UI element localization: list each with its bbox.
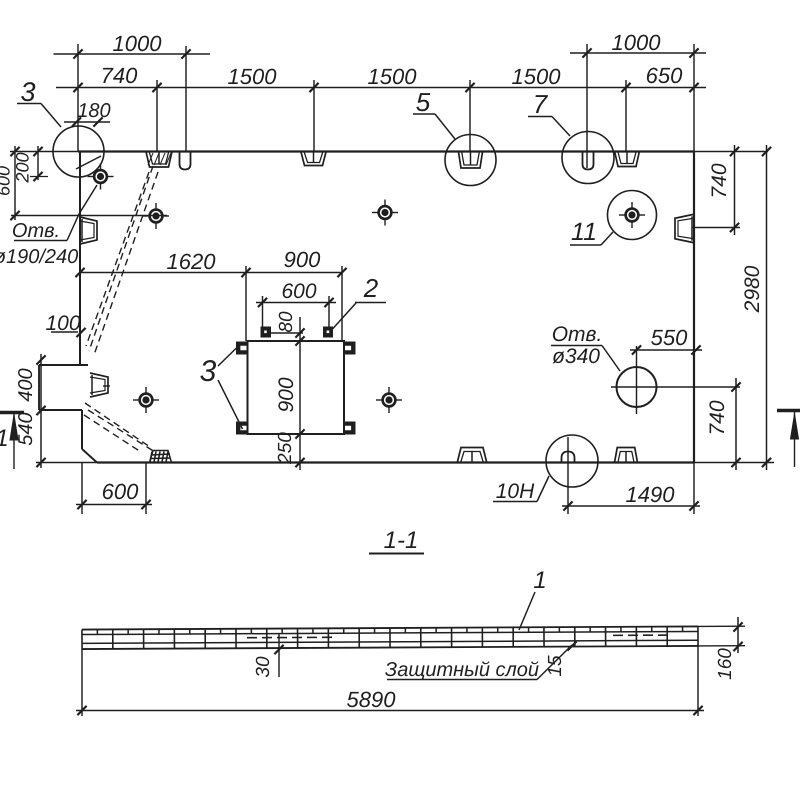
svg-text:Отв.: Отв. — [552, 323, 603, 346]
svg-text:540: 540 — [15, 412, 37, 445]
svg-text:3: 3 — [200, 355, 217, 388]
svg-text:400: 400 — [15, 368, 37, 401]
svg-text:1620: 1620 — [167, 249, 217, 274]
svg-text:2: 2 — [363, 273, 379, 303]
svg-text:30: 30 — [253, 656, 274, 678]
svg-text:600: 600 — [281, 280, 316, 303]
svg-text:ø340: ø340 — [552, 345, 600, 368]
svg-text:550: 550 — [651, 325, 688, 350]
svg-text:1000: 1000 — [113, 31, 163, 56]
svg-text:11: 11 — [571, 218, 597, 246]
svg-text:10Н: 10Н — [496, 480, 535, 503]
svg-text:Защитный слой: Защитный слой — [385, 659, 539, 681]
svg-text:160: 160 — [715, 648, 736, 680]
svg-text:7: 7 — [533, 89, 549, 119]
svg-text:15: 15 — [545, 655, 566, 677]
svg-text:1-1: 1-1 — [384, 527, 419, 554]
svg-text:650: 650 — [646, 63, 683, 88]
svg-text:2980: 2980 — [741, 265, 764, 313]
svg-text:1000: 1000 — [612, 30, 662, 55]
svg-text:1500: 1500 — [512, 64, 562, 89]
svg-text:600: 600 — [0, 166, 14, 196]
svg-text:5890: 5890 — [347, 687, 397, 712]
svg-text:740: 740 — [708, 163, 731, 198]
svg-text:900: 900 — [275, 377, 298, 412]
svg-text:600: 600 — [102, 479, 139, 504]
svg-text:1500: 1500 — [368, 64, 418, 89]
svg-text:3: 3 — [20, 77, 35, 107]
svg-text:Отв.: Отв. — [12, 220, 60, 242]
svg-text:250: 250 — [275, 432, 296, 465]
svg-text:5: 5 — [416, 87, 431, 117]
svg-text:900: 900 — [284, 247, 321, 272]
svg-text:80: 80 — [276, 311, 297, 333]
svg-text:1: 1 — [0, 425, 9, 452]
svg-text:740: 740 — [101, 63, 138, 88]
svg-text:1500: 1500 — [228, 64, 278, 89]
svg-text:ø190/240: ø190/240 — [0, 246, 78, 268]
svg-text:740: 740 — [706, 400, 729, 435]
svg-text:180: 180 — [77, 100, 110, 122]
svg-text:200: 200 — [13, 152, 33, 183]
svg-text:1490: 1490 — [626, 482, 676, 507]
svg-text:1: 1 — [533, 567, 546, 594]
